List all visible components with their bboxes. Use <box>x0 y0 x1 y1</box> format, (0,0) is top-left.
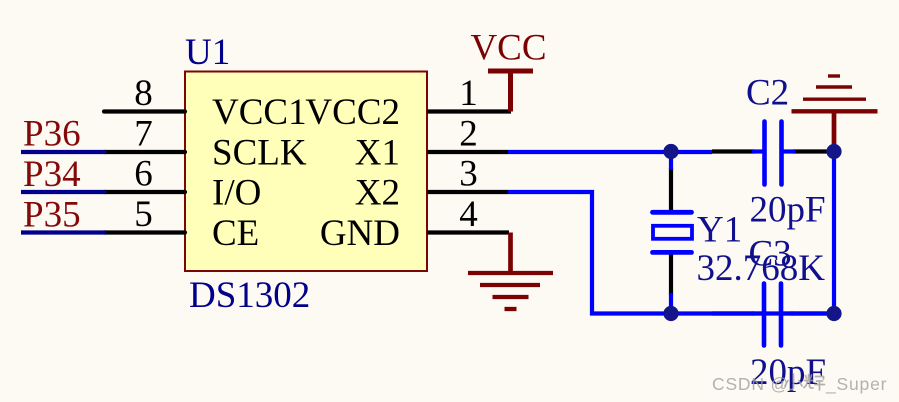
svg-text:1: 1 <box>459 73 478 114</box>
svg-text:4: 4 <box>459 194 478 235</box>
svg-text:6: 6 <box>134 154 153 195</box>
svg-text:20pF: 20pF <box>750 190 826 231</box>
svg-text:X2: X2 <box>355 173 400 214</box>
svg-text:5: 5 <box>134 194 153 235</box>
svg-text:VCC: VCC <box>470 28 546 69</box>
svg-text:P35: P35 <box>23 195 81 236</box>
svg-text:Y1: Y1 <box>697 210 742 251</box>
svg-text:P34: P34 <box>23 154 81 195</box>
svg-text:DS1302: DS1302 <box>189 275 310 316</box>
svg-text:3: 3 <box>459 154 478 195</box>
svg-text:CE: CE <box>212 213 259 254</box>
svg-text:SCLK: SCLK <box>212 133 307 174</box>
svg-text:2: 2 <box>459 114 478 155</box>
svg-text:VCC2: VCC2 <box>305 92 400 133</box>
svg-text:I/O: I/O <box>212 173 261 214</box>
svg-text:VCC1: VCC1 <box>212 92 307 133</box>
svg-text:7: 7 <box>134 114 153 155</box>
svg-text:8: 8 <box>134 73 153 114</box>
svg-text:GND: GND <box>320 213 400 254</box>
svg-text:U1: U1 <box>185 32 230 73</box>
svg-text:32.768K: 32.768K <box>697 248 826 289</box>
svg-text:_Super: _Super <box>825 374 887 395</box>
svg-text:CSDN @: CSDN @ <box>712 374 789 394</box>
svg-text:P36: P36 <box>23 114 81 155</box>
svg-text:X1: X1 <box>355 133 400 174</box>
svg-text:C2: C2 <box>746 73 789 114</box>
